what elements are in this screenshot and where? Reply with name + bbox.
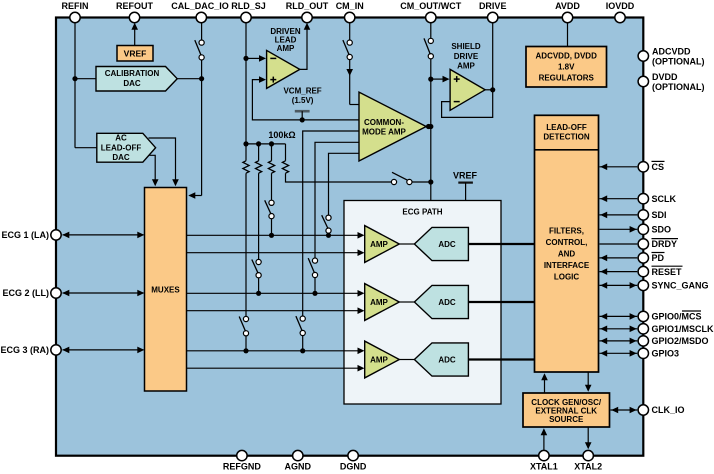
svg-text:GPIO2/MSDO: GPIO2/MSDO — [652, 336, 709, 346]
svg-text:SDI: SDI — [652, 210, 667, 220]
wire R4 through switch to CM_OUT line — [286, 172, 434, 184]
pin GPIO3 — [638, 348, 679, 358]
wire clock box to XTAL2 — [585, 427, 592, 449]
wire filters to clock — [585, 372, 592, 392]
pin REFGND — [223, 450, 262, 471]
svg-text:ECG PATH: ECG PATH — [402, 208, 442, 217]
wire bus to R4 — [285, 144, 287, 161]
svg-text:VREF: VREF — [453, 171, 478, 181]
wire MUX outputs to AMP3 inputs — [187, 348, 365, 372]
pin SYNC_GANG — [638, 280, 708, 290]
svg-text:FILTERS,: FILTERS, — [549, 226, 584, 235]
resistor R4 — [282, 161, 288, 173]
wire PD signal line — [600, 255, 638, 262]
svg-text:DAC: DAC — [112, 153, 130, 162]
wire ADC3 data bus to filters — [468, 358, 534, 360]
svg-text:DETECTION: DETECTION — [543, 133, 589, 142]
svg-text:VREF: VREF — [124, 49, 147, 59]
svg-text:AMP: AMP — [370, 298, 388, 307]
wire CLK_IO line — [611, 407, 638, 414]
wire MUX outputs to AMP1 inputs — [187, 232, 365, 256]
svg-text:AMP: AMP — [457, 62, 475, 71]
svg-text:PD: PD — [652, 253, 665, 263]
op-amp AMP1 — [365, 226, 400, 263]
svg-text:CM_IN: CM_IN — [336, 1, 364, 11]
svg-text:ECG 2 (LL): ECG 2 (LL) — [3, 288, 50, 298]
pin DRIVE — [479, 1, 507, 23]
svg-text:INTERFACE: INTERFACE — [544, 261, 590, 270]
wire GPIO1/MSCLK signal line — [600, 326, 638, 333]
svg-text:100kΩ: 100kΩ — [268, 130, 295, 140]
pin GPIO0/MCS — [638, 311, 701, 322]
svg-text:ADC: ADC — [438, 298, 456, 307]
svg-text:CAL_DAC_IO: CAL_DAC_IO — [171, 1, 229, 11]
svg-text:VCM_REF: VCM_REF — [283, 87, 321, 96]
wire AMP2 to ADC2 — [399, 301, 414, 303]
pin XTAL2 — [574, 450, 602, 471]
svg-text:ADC: ADC — [438, 355, 456, 364]
svg-text:ADC: ADC — [438, 240, 456, 249]
op-amp driven lead amp — [267, 27, 301, 88]
svg-text:DAC: DAC — [123, 79, 141, 88]
block ECG PATH — [344, 201, 501, 405]
pin AVDD — [555, 1, 580, 23]
wire AMP3 to ADC3 — [399, 359, 414, 361]
wire CM_IN with switch to common-mode amp — [343, 18, 360, 105]
ADC 2 — [414, 285, 468, 318]
wire DRDY signal line — [600, 243, 638, 245]
wire R1 to ECG row 1 switch — [239, 173, 248, 353]
pin XTAL1 — [530, 450, 558, 471]
wire common-mode amp tap to ECG row 3 — [296, 131, 360, 353]
op-amp AMP2 — [365, 284, 400, 321]
svg-text:DVDD: DVDD — [652, 72, 678, 82]
pin PD — [638, 253, 664, 264]
svg-text:CALIBRATION: CALIBRATION — [105, 69, 160, 78]
svg-text:XTAL2: XTAL2 — [574, 462, 602, 472]
svg-text:DRIVE: DRIVE — [479, 1, 507, 11]
svg-text:CS: CS — [652, 162, 665, 172]
wire RLD_SJ line — [243, 18, 248, 161]
wire MUX outputs to AMP2 inputs — [187, 290, 365, 314]
wire CM_OUT line to shield drive amp input — [431, 76, 450, 83]
svg-text:DRIVE: DRIVE — [454, 52, 479, 61]
pin DGND — [340, 450, 367, 471]
pin SDO — [638, 224, 671, 234]
pin RESET — [638, 266, 682, 277]
wire CS signal line — [600, 164, 638, 171]
wire AC LEAD-OFF DAC output B to MUXES — [150, 155, 159, 186]
pin CLK_IO — [638, 405, 684, 415]
pin GPIO2/MSDO — [638, 336, 708, 346]
wire SCLK signal line — [600, 195, 638, 202]
svg-text:GPIO3: GPIO3 — [652, 349, 680, 359]
svg-text:(OPTIONAL): (OPTIONAL) — [652, 57, 705, 67]
svg-text:AC: AC — [115, 134, 127, 143]
wire RLD_SJ to driven lead amp inverting input — [246, 55, 266, 62]
wire bus to R3 — [271, 144, 273, 161]
wire R2 to ECG row 2 switch — [252, 173, 261, 296]
svg-text:SOURCE: SOURCE — [549, 415, 584, 424]
wire common-mode amp tap to ECG row 1 — [322, 153, 360, 238]
svg-text:SYNC_GANG: SYNC_GANG — [652, 281, 709, 291]
svg-text:AMP: AMP — [370, 240, 388, 249]
wire RESET signal line — [600, 268, 638, 275]
svg-text:REFOUT: REFOUT — [116, 1, 154, 11]
svg-text:COMMON-: COMMON- — [364, 118, 404, 127]
wire REFIN to CALIBRATION DAC and AC LEAD-OFF DAC — [72, 18, 98, 148]
pin CM_OUT/WCT — [400, 1, 461, 23]
pin CAL_DAC_IO — [171, 1, 229, 23]
svg-text:REFGND: REFGND — [223, 462, 262, 472]
wire common-mode amp tap to ECG row 2 — [308, 142, 359, 296]
svg-text:SDO: SDO — [652, 225, 672, 235]
svg-text:RESET: RESET — [652, 267, 683, 277]
pin SCLK — [638, 194, 676, 204]
pin REFIN — [62, 1, 89, 23]
wire SDO signal line — [600, 226, 638, 233]
svg-text:ADCVDD: ADCVDD — [652, 47, 691, 57]
wire ADC1 data bus to filters — [468, 243, 534, 245]
svg-text:CONTROL,: CONTROL, — [546, 238, 588, 247]
wire CAL_DAC_IO with switch to MUXES — [188, 18, 204, 199]
block CLOCK GEN/OSC/EXTERNAL CLK SOURCE — [523, 393, 610, 427]
wire CM_OUT/WCT line with switch — [424, 18, 433, 201]
resistor R2 — [256, 161, 262, 173]
wire GPIO2/MSDO signal line — [600, 338, 638, 345]
ADC 3 — [414, 343, 468, 376]
wire VCM_REF rail to driven lead amp noninverting input — [252, 76, 359, 120]
block MUXES — [145, 188, 187, 392]
svg-text:AVDD: AVDD — [555, 1, 580, 11]
pin DVDD (OPTIONAL) — [638, 72, 704, 92]
pin CM_IN — [336, 1, 364, 23]
pin AGND — [285, 450, 312, 471]
svg-text:SCLK: SCLK — [652, 194, 677, 204]
resistor R1 — [243, 161, 249, 173]
pin RLD_SJ — [231, 1, 266, 23]
wire GPIO3 signal line — [600, 350, 638, 357]
wire R3 to ECG row 1 switch — [265, 173, 274, 238]
op-amp shield drive amp — [450, 42, 485, 111]
ADC 1 — [414, 227, 468, 260]
wire clock to filters — [541, 373, 548, 393]
block VREF — [117, 46, 153, 62]
pin RLD_OUT — [286, 1, 329, 23]
svg-text:IOVDD: IOVDD — [606, 1, 635, 11]
pin IOVDD — [606, 1, 635, 23]
wire SYNC_GANG signal line — [600, 282, 638, 289]
svg-text:1.8V: 1.8V — [558, 63, 575, 72]
pin SDI — [638, 210, 666, 220]
block AC LEAD-OFF DAC — [97, 133, 156, 162]
svg-text:ECG 3 (RA): ECG 3 (RA) — [0, 345, 49, 355]
svg-text:REGULATORS: REGULATORS — [539, 74, 595, 83]
svg-text:(OPTIONAL): (OPTIONAL) — [652, 82, 705, 92]
svg-text:SHIELD: SHIELD — [451, 42, 481, 51]
svg-text:AND: AND — [558, 250, 576, 259]
pin GPIO1/MSCLK — [638, 324, 714, 334]
svg-text:MUXES: MUXES — [151, 286, 180, 295]
svg-text:LOGIC: LOGIC — [554, 273, 580, 282]
wire XTAL1 to clock box — [541, 428, 548, 450]
wire GPIO0/MCS signal line — [600, 313, 638, 320]
op-amp AMP3 — [365, 341, 400, 378]
svg-text:LEAD-OFF: LEAD-OFF — [101, 143, 142, 152]
svg-text:REFIN: REFIN — [62, 1, 89, 11]
svg-text:(1.5V): (1.5V) — [292, 96, 314, 105]
wire AVDD to regulators — [567, 18, 569, 47]
svg-text:DRDY: DRDY — [652, 239, 678, 249]
node VREF reference tap — [453, 171, 478, 201]
svg-text:RLD_OUT: RLD_OUT — [286, 1, 329, 11]
svg-text:MODE AMP: MODE AMP — [362, 128, 406, 137]
wire AMP1 to ADC1 — [399, 243, 414, 245]
svg-text:GPIO0/MCS: GPIO0/MCS — [652, 312, 702, 322]
pin REFOUT — [116, 1, 154, 23]
pin DRDY — [638, 239, 678, 250]
pin CS — [638, 161, 664, 172]
svg-text:ADCVDD, DVDD: ADCVDD, DVDD — [536, 52, 598, 61]
wire driven lead amp output to RLD_OUT pin — [300, 23, 311, 70]
wire SDI signal line — [600, 212, 638, 219]
block CALIBRATION DAC — [96, 67, 177, 92]
block ADCVDD DVDD 1.8V regulators — [526, 47, 607, 88]
wire VREF to REFOUT pin — [131, 23, 138, 46]
wire ADC2 data bus to filters — [468, 301, 534, 303]
wire ECG 1 (LA) electrode line — [62, 232, 144, 239]
op-amp common-mode amp — [359, 92, 431, 161]
wire shield drive amp output to DRIVE pin and feedback — [442, 18, 496, 118]
pin ECG 2 (LL) — [3, 288, 62, 298]
svg-text:RLD_SJ: RLD_SJ — [231, 1, 266, 11]
svg-text:CM_OUT/WCT: CM_OUT/WCT — [400, 1, 461, 11]
node VCM_REF (1.5V) reference tap — [283, 87, 321, 123]
wire CALIBRATION DAC output — [177, 76, 204, 81]
pin ECG 1 (LA) — [1, 230, 61, 240]
svg-text:LEAD-OFF: LEAD-OFF — [546, 123, 587, 132]
node 100k ohm resistor bus — [246, 130, 296, 146]
svg-text:AMP: AMP — [370, 355, 388, 364]
wire AC LEAD-OFF DAC output A to MUXES — [149, 138, 179, 186]
svg-text:XTAL1: XTAL1 — [530, 462, 558, 472]
svg-text:ECG 1 (LA): ECG 1 (LA) — [1, 230, 49, 240]
wire ECG 2 (LL) electrode line — [62, 290, 144, 297]
wire bus to R2 — [258, 144, 260, 161]
svg-text:CLK_IO: CLK_IO — [652, 405, 685, 415]
svg-text:AMP: AMP — [277, 44, 295, 53]
wire ECG 3 (RA) electrode line — [62, 347, 144, 354]
pin ECG 3 (RA) — [0, 345, 61, 355]
pin ADCVDD (OPTIONAL) — [638, 47, 704, 67]
resistor R3 — [268, 161, 274, 173]
svg-text:AGND: AGND — [285, 462, 312, 472]
chip body outline — [56, 18, 643, 456]
block LEAD-OFF DETECTION / FILTERS CONTROL AND INTERFACE LOGIC — [535, 115, 599, 372]
svg-text:GPIO1/MSCLK: GPIO1/MSCLK — [652, 324, 714, 334]
svg-text:DGND: DGND — [340, 462, 367, 472]
